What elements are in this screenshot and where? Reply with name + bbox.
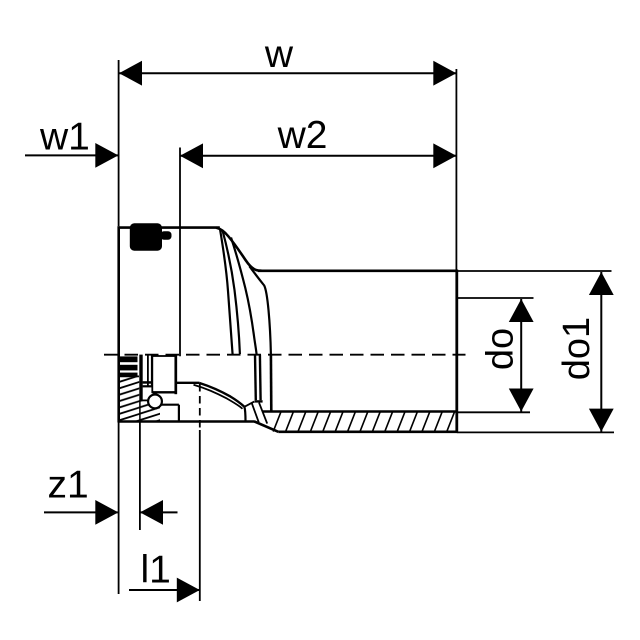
dimension z1 [44, 500, 178, 525]
inner contour right below axis [270, 355, 273, 412]
extension line w2 left (x=180) [179, 148, 181, 357]
socket top edge [118, 226, 220, 229]
bore step line [151, 404, 179, 406]
svg-text:w1: w1 [39, 116, 90, 159]
dimension w1 line [25, 143, 118, 168]
extension line l1 (dashed then solid) [199, 384, 201, 430]
bore mid line [255, 400, 263, 402]
svg-text:l1: l1 [141, 549, 171, 592]
insert body [152, 355, 177, 394]
clamp component verticals [147, 355, 149, 387]
pipe end face [455, 270, 458, 434]
pipe wall hatch band [273, 412, 454, 432]
dimension w2 line [180, 143, 456, 168]
do1 extension top [457, 270, 612, 272]
socket wall hatch region [119, 377, 160, 421]
wedge slant 2 [259, 403, 267, 424]
shoulder contour line 3 [249, 266, 271, 354]
socket bottom edge [118, 420, 255, 423]
dimension w line [119, 61, 456, 86]
svg-text:w2: w2 [277, 114, 328, 157]
do extension bottom [457, 411, 530, 413]
do extension top [457, 297, 534, 299]
heating coil stripes [120, 356, 138, 377]
extension line left (x=118.6 top) [118, 60, 120, 226]
shoulder contour line 1b [223, 231, 240, 355]
grip ring bar [139, 355, 142, 401]
bottom slope transition [254, 422, 278, 432]
extension line left bottom (z1) [118, 422, 120, 595]
pipe bore line [263, 410, 457, 412]
svg-text:do: do [479, 328, 521, 370]
foot top edge [244, 402, 254, 407]
foot left edge [244, 407, 245, 422]
dimension l1 [129, 578, 200, 603]
extension line z1 right [139, 422, 141, 530]
shoulder silhouette curve [216, 228, 262, 271]
dimension do1 arrow [589, 272, 614, 432]
shoulder contour line 2 [231, 238, 257, 355]
bore step right edge [178, 405, 180, 422]
svg-text:z1: z1 [48, 464, 89, 507]
o-ring seal [148, 395, 162, 409]
socket left face [117, 226, 120, 422]
funnel top line [176, 382, 200, 384]
dimension do arrow [509, 299, 534, 412]
svg-text:w: w [264, 33, 294, 76]
wedge slant 1 [252, 403, 259, 422]
inner contour pair below axis [254, 355, 257, 401]
clamp component bars [143, 381, 152, 384]
funnel curve upper [200, 383, 245, 407]
extension line right (x=456.4 top) [455, 69, 457, 270]
svg-text:do1: do1 [556, 317, 598, 380]
pipe top edge [258, 269, 457, 272]
pipe bottom edge [278, 430, 457, 433]
centerline (dash-dot axis) [104, 354, 466, 356]
shoulder contour line 1 [220, 229, 233, 355]
do1 extension bottom [457, 431, 614, 433]
funnel curve lower [194, 385, 243, 409]
fusion terminal blob [130, 223, 172, 250]
